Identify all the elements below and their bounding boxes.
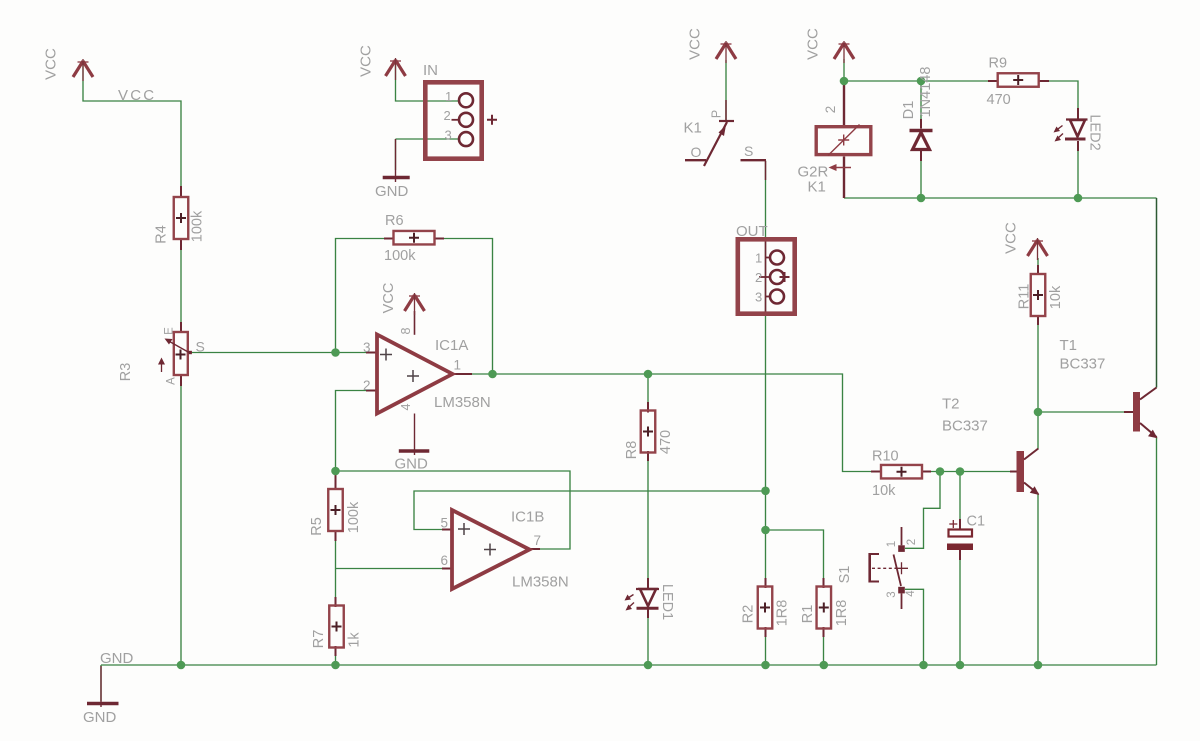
svg-text:4: 4 (399, 403, 413, 410)
svg-text:R6: R6 (385, 213, 404, 229)
svg-text:1R8: 1R8 (834, 600, 850, 627)
svg-text:R11: R11 (1017, 284, 1033, 310)
svg-text:BC337: BC337 (1060, 356, 1106, 373)
svg-text:LED1: LED1 (659, 584, 675, 620)
svg-text:1R8: 1R8 (775, 600, 791, 627)
svg-text:R7: R7 (311, 630, 327, 649)
svg-text:2: 2 (755, 270, 762, 285)
svg-text:2: 2 (363, 378, 371, 393)
svg-text:4: 4 (905, 590, 917, 597)
svg-text:100k: 100k (190, 210, 206, 242)
svg-text:E: E (164, 327, 176, 335)
svg-text:VCC: VCC (118, 87, 156, 104)
svg-text:2: 2 (906, 539, 918, 545)
svg-text:100k: 100k (346, 501, 362, 533)
svg-text:10k: 10k (872, 483, 896, 499)
svg-text:VCC: VCC (381, 283, 397, 314)
svg-text:OUT: OUT (736, 223, 768, 240)
svg-text:R2: R2 (741, 605, 757, 624)
svg-text:C1: C1 (967, 514, 986, 530)
svg-text:VCC: VCC (804, 28, 821, 60)
svg-text:O: O (691, 144, 702, 160)
svg-text:1N4148: 1N4148 (918, 67, 934, 118)
svg-text:S: S (196, 339, 205, 355)
svg-text:P: P (709, 110, 723, 118)
svg-text:T1: T1 (1060, 337, 1078, 354)
svg-text:1: 1 (755, 251, 762, 266)
svg-text:BC337: BC337 (942, 418, 988, 435)
svg-text:D1: D1 (901, 101, 917, 120)
svg-text:3: 3 (363, 340, 371, 355)
svg-text:R1: R1 (800, 605, 816, 624)
svg-text:GND: GND (395, 456, 429, 473)
svg-text:LED2: LED2 (1086, 114, 1102, 150)
svg-text:2: 2 (823, 106, 838, 114)
svg-text:T2: T2 (942, 396, 960, 413)
svg-text:K1: K1 (808, 179, 826, 196)
svg-text:3: 3 (755, 290, 762, 305)
svg-text:S: S (744, 143, 753, 159)
svg-text:R10: R10 (872, 449, 899, 465)
svg-text:1: 1 (886, 541, 898, 547)
svg-text:IC1A: IC1A (435, 337, 468, 354)
svg-text:R3: R3 (118, 363, 134, 382)
svg-text:6: 6 (441, 553, 449, 568)
svg-text:VCC: VCC (1002, 222, 1019, 254)
svg-text:470: 470 (658, 430, 674, 454)
svg-text:470: 470 (987, 92, 1011, 108)
svg-text:10k: 10k (1048, 285, 1064, 309)
svg-text:IC1B: IC1B (511, 509, 544, 526)
svg-text:LM358N: LM358N (512, 574, 569, 591)
svg-text:VCC: VCC (42, 48, 59, 80)
svg-text:GND: GND (375, 183, 409, 200)
svg-text:2: 2 (444, 108, 451, 123)
svg-text:R8: R8 (624, 441, 640, 460)
svg-text:GND: GND (100, 650, 134, 667)
svg-text:1: 1 (445, 89, 452, 104)
svg-text:3: 3 (445, 128, 452, 143)
svg-text:R5: R5 (309, 517, 325, 536)
svg-text:LM358N: LM358N (434, 394, 491, 411)
svg-text:GND: GND (83, 709, 117, 726)
svg-text:100k: 100k (384, 248, 416, 264)
svg-text:S1: S1 (837, 566, 853, 584)
svg-text:1k: 1k (347, 632, 363, 648)
svg-text:VCC: VCC (686, 28, 703, 60)
svg-text:K1: K1 (684, 120, 702, 137)
svg-text:R4: R4 (154, 225, 170, 244)
svg-text:7: 7 (534, 533, 542, 548)
svg-text:1: 1 (454, 358, 462, 373)
svg-text:3: 3 (886, 591, 898, 597)
svg-text:8: 8 (399, 327, 413, 334)
svg-text:IN: IN (423, 62, 438, 79)
svg-text:R9: R9 (989, 56, 1008, 72)
svg-text:5: 5 (441, 516, 449, 531)
svg-text:VCC: VCC (357, 45, 374, 77)
svg-text:A: A (166, 377, 178, 385)
